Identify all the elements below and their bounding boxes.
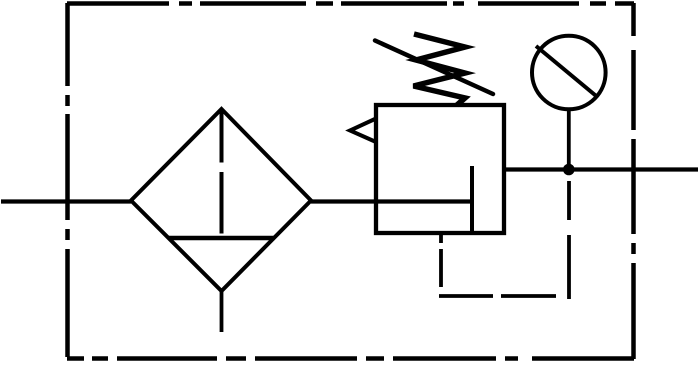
enclosure border top (dash-dot)	[67, 1, 634, 6]
enclosure border left (dash-dot)	[65, 3, 70, 359]
regulator R1 relief arrowhead	[350, 119, 376, 143]
filter F1 separator line	[168, 236, 275, 241]
pilot feedback dashed line: horizontal run	[439, 294, 569, 298]
enclosure border bottom (dash-dot)	[67, 356, 634, 361]
pressure gauge G1 needle	[536, 46, 598, 98]
node: outlet junction dot	[563, 164, 575, 176]
wire: gauge stem	[567, 110, 571, 169]
filter F1 (diamond body)	[131, 109, 311, 291]
pilot feedback dashed line: up to outlet junction	[567, 170, 571, 299]
regulator R1 adjustment line	[375, 41, 493, 95]
wire: outlet port line	[504, 167, 698, 171]
regulator R1 (valve body box)	[376, 105, 504, 233]
pressure gauge G1 (dial circle)	[532, 36, 606, 110]
regulator R1 setting spring (zigzag)	[414, 34, 466, 105]
pilot feedback dashed line: down from regulator bottom	[439, 233, 443, 296]
wire: inlet port line	[1, 199, 131, 203]
wire: filter condensate drain	[220, 291, 224, 332]
regulator R1 internal passage vertical	[470, 166, 474, 233]
enclosure border right (dash-dot)	[631, 3, 636, 359]
filter F1 dashed element centerline	[220, 110, 224, 234]
wire: filter outlet to regulator inlet passage	[311, 199, 472, 203]
